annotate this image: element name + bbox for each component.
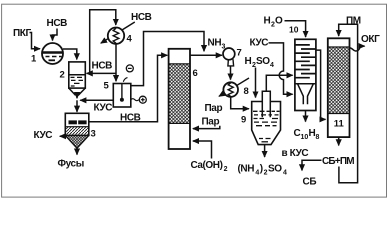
- svg-text:SO: SO: [256, 56, 270, 67]
- svg-text:3: 3: [91, 129, 96, 140]
- svg-text:8: 8: [316, 134, 320, 141]
- svg-text:Пар: Пар: [202, 117, 220, 128]
- svg-text:ПКГ: ПКГ: [13, 28, 31, 39]
- svg-text:КУС: КУС: [94, 103, 113, 114]
- svg-text:SO: SO: [268, 164, 282, 175]
- svg-text:ОКГ: ОКГ: [361, 34, 380, 45]
- svg-text:КУС: КУС: [250, 38, 269, 49]
- svg-text:СБ+ПМ: СБ+ПМ: [322, 156, 354, 167]
- svg-text:КУС: КУС: [34, 130, 53, 141]
- svg-text:5: 5: [104, 81, 110, 92]
- svg-text:в КУС: в КУС: [282, 148, 309, 159]
- svg-text:10: 10: [301, 134, 309, 141]
- svg-text:2: 2: [224, 166, 228, 173]
- svg-text:7: 7: [237, 48, 242, 59]
- svg-text:C: C: [294, 128, 301, 139]
- svg-text:(NH: (NH: [238, 164, 255, 175]
- svg-text:1: 1: [31, 54, 37, 65]
- svg-text:Фусы: Фусы: [58, 159, 84, 170]
- svg-text:11: 11: [334, 119, 345, 130]
- svg-text:4: 4: [255, 170, 259, 177]
- svg-text:2: 2: [60, 70, 65, 81]
- svg-text:НСВ: НСВ: [92, 61, 113, 72]
- svg-text:4: 4: [270, 62, 274, 69]
- svg-text:10: 10: [289, 25, 299, 35]
- svg-text:4: 4: [283, 170, 287, 177]
- svg-text:НСВ: НСВ: [131, 12, 152, 23]
- svg-text:H: H: [264, 16, 271, 27]
- svg-text:9: 9: [241, 115, 246, 126]
- svg-text:): ): [260, 164, 263, 175]
- svg-text:Пар: Пар: [205, 103, 223, 114]
- svg-text:2: 2: [264, 170, 268, 177]
- svg-text:НСВ: НСВ: [47, 18, 68, 29]
- svg-text:NH: NH: [208, 38, 222, 49]
- svg-text:СБ: СБ: [303, 177, 317, 188]
- svg-text:6: 6: [193, 68, 198, 79]
- svg-text:4: 4: [127, 34, 133, 45]
- svg-text:H: H: [309, 128, 316, 139]
- svg-text:O: O: [275, 16, 283, 27]
- svg-text:Ca(OH): Ca(OH): [191, 160, 223, 171]
- svg-text:H: H: [245, 56, 252, 67]
- svg-text:8: 8: [244, 86, 249, 97]
